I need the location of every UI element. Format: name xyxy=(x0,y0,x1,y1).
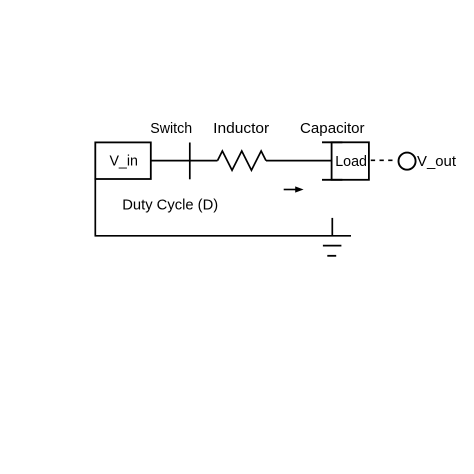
wire load bottom to ground xyxy=(331,218,333,236)
svg-text:Load: Load xyxy=(335,154,367,170)
svg-text:Switch: Switch xyxy=(150,121,192,137)
ground symbol xyxy=(323,246,342,256)
wire from inductor to capacitor/load xyxy=(266,160,332,162)
ground rail wire xyxy=(95,235,352,237)
capacitor C1 top plate xyxy=(322,141,342,143)
switch S1 bar xyxy=(189,143,191,180)
current arrow xyxy=(284,186,304,192)
output terminal circle xyxy=(399,153,416,170)
svg-text:V_out: V_out xyxy=(417,154,456,170)
svg-text:Inductor: Inductor xyxy=(213,121,269,137)
load box xyxy=(332,142,369,180)
capacitor C1 bottom plate xyxy=(322,179,342,181)
voltage source V_in box xyxy=(95,142,151,179)
svg-text:Capacitor: Capacitor xyxy=(300,121,365,137)
dashed wire to output terminal xyxy=(371,159,396,161)
inductor L1 zigzag xyxy=(218,151,267,170)
wire from V_in to inductor xyxy=(151,160,218,162)
svg-text:V_in: V_in xyxy=(109,154,138,170)
svg-text:Duty Cycle (D): Duty Cycle (D) xyxy=(122,197,218,213)
wire V_in down to ground rail xyxy=(94,178,96,236)
